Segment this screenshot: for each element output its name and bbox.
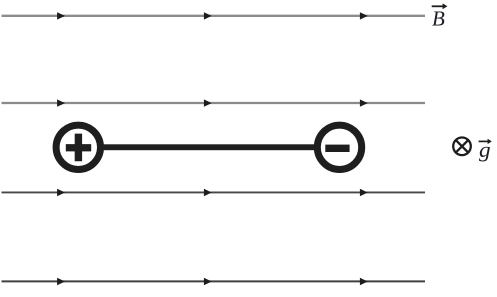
arrowhead on field line 1 (middle) [204,12,212,19]
negative terminal circle [317,125,361,169]
plus sign [66,134,91,162]
field line 3 [2,191,426,193]
minus sign [325,145,349,152]
g into-page symbol (circle with cross) [453,138,471,156]
arrowhead on field line 3 (right) [360,189,368,196]
arrowhead on field line 1 (left) [57,12,65,19]
positive terminal circle [56,125,100,169]
field line 4 [2,280,426,282]
svg-text:g: g [479,137,491,162]
arrowhead on field line 2 (right) [360,99,368,106]
arrowhead on field line 4 (middle) [204,278,212,285]
arrowhead on field line 2 (left) [57,99,65,106]
field line 2 [2,102,426,104]
field line 1 [2,15,426,17]
arrowhead on field line 4 (right) [360,278,368,285]
arrowhead on field line 2 (middle) [204,99,212,106]
arrowhead on field line 4 (left) [57,278,65,285]
label g vector arrow [479,139,492,144]
label B vector arrow [432,3,448,9]
arrowhead on field line 1 (right) [360,12,368,19]
rod (conducting bar) [78,144,340,150]
arrowhead on field line 3 (middle) [204,189,212,196]
arrowhead on field line 3 (left) [57,189,65,196]
svg-text:B: B [432,7,445,31]
